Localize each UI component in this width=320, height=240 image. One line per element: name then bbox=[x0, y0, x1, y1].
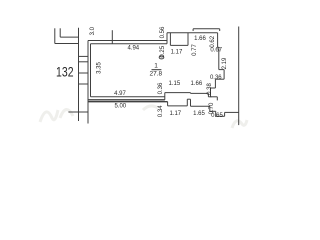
svg-text:0.36: 0.36 bbox=[158, 82, 164, 94]
svg-text:0.70: 0.70 bbox=[209, 102, 215, 114]
svg-text:0.77: 0.77 bbox=[192, 44, 198, 56]
svg-text:1: 1 bbox=[154, 63, 158, 70]
svg-text:2.19: 2.19 bbox=[222, 57, 228, 69]
svg-text:1.65: 1.65 bbox=[193, 111, 205, 117]
svg-text:0.62: 0.62 bbox=[210, 35, 216, 47]
svg-text:4.97: 4.97 bbox=[114, 91, 126, 97]
svg-text:0.38: 0.38 bbox=[207, 83, 213, 95]
svg-text:27.8: 27.8 bbox=[149, 71, 162, 78]
svg-text:0.56: 0.56 bbox=[160, 26, 166, 38]
svg-text:3.0: 3.0 bbox=[90, 26, 96, 35]
svg-text:4.94: 4.94 bbox=[127, 45, 139, 51]
svg-text:132: 132 bbox=[56, 63, 74, 79]
svg-text:5.00: 5.00 bbox=[114, 104, 126, 110]
svg-text:0.36: 0.36 bbox=[210, 75, 222, 81]
svg-text:1.66: 1.66 bbox=[194, 36, 206, 42]
svg-text:3.35: 3.35 bbox=[97, 62, 103, 74]
svg-text:1.17: 1.17 bbox=[169, 111, 181, 117]
svg-text:1.15: 1.15 bbox=[169, 81, 181, 87]
svg-text:0.34: 0.34 bbox=[158, 105, 164, 117]
svg-text:0.25: 0.25 bbox=[160, 45, 166, 57]
svg-text:1.66: 1.66 bbox=[191, 81, 203, 87]
svg-text:1.17: 1.17 bbox=[171, 49, 183, 55]
